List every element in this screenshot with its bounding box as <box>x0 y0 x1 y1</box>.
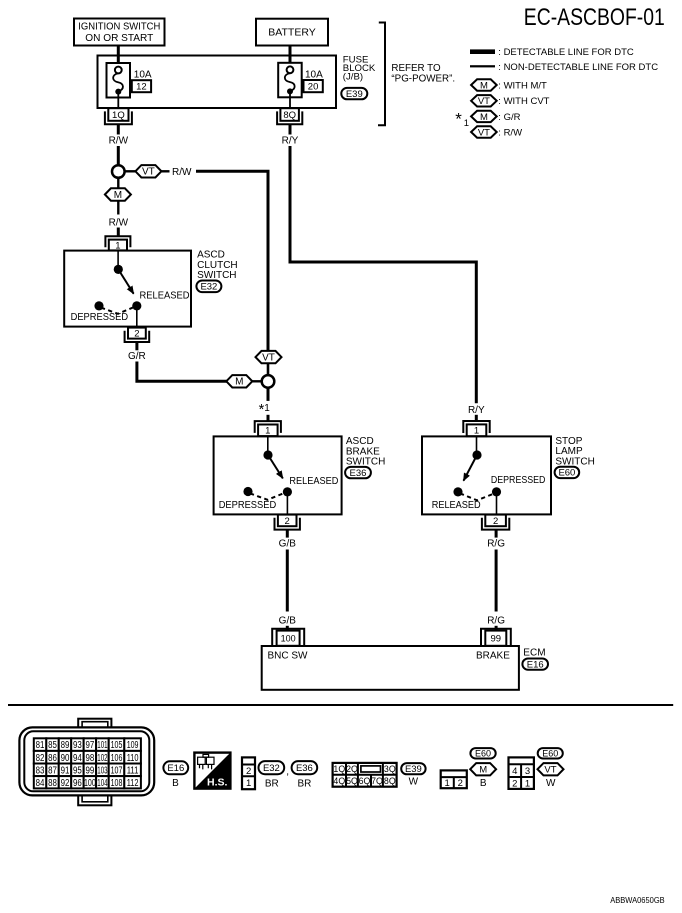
legend G/R text <box>498 112 520 123</box>
connector ref E36 <box>345 467 371 479</box>
svg-text:E32: E32 <box>263 763 280 774</box>
fuse number 12 box <box>132 80 151 92</box>
svg-text:2Q: 2Q <box>346 764 358 774</box>
wire junction down <box>267 387 270 401</box>
svg-text:: DETECTABLE LINE FOR DTC: : DETECTABLE LINE FOR DTC <box>498 47 634 58</box>
wire M hexagon to junction circle <box>252 380 262 382</box>
svg-text:BR: BR <box>265 779 279 790</box>
svg-text:E60: E60 <box>542 749 558 759</box>
ECM box <box>262 646 519 690</box>
svg-text:BATTERY: BATTERY <box>268 27 315 39</box>
clutch switch internal wire from pin 1 <box>117 251 119 266</box>
svg-text:R/W: R/W <box>172 167 192 178</box>
svg-text:93: 93 <box>73 740 82 751</box>
ignition switch box <box>74 19 165 46</box>
wire G/B long run <box>286 550 289 612</box>
svg-text:ABBWA0650GB: ABBWA0650GB <box>610 895 665 905</box>
fuse block label <box>343 54 376 82</box>
wire stop lamp pin 2 down <box>495 530 498 538</box>
svg-text:SWITCH: SWITCH <box>555 456 594 467</box>
connector drawing E32/E36 (2-pin) <box>242 757 255 789</box>
svg-text:(J/B): (J/B) <box>343 72 363 83</box>
stop lamp internal wire to pin 2 <box>496 496 498 515</box>
svg-text:VT: VT <box>544 765 556 776</box>
svg-text:R/G: R/G <box>487 615 505 626</box>
svg-text:87: 87 <box>48 765 57 776</box>
hexagon VT (connector strip) <box>538 763 564 776</box>
stop lamp internal wire from pin 1 <box>476 436 478 450</box>
svg-text:1Q: 1Q <box>333 764 345 774</box>
svg-text:DEPRESSED: DEPRESSED <box>71 312 129 323</box>
legend hexagon M (with M/T) <box>471 79 497 91</box>
wire G/B to ECM pin 100 <box>286 626 289 631</box>
svg-text:1: 1 <box>246 778 251 789</box>
svg-text:1: 1 <box>474 426 479 437</box>
svg-text:82: 82 <box>36 753 45 764</box>
connector ref E16 (ECM) <box>522 659 548 671</box>
svg-text:VT: VT <box>142 167 155 178</box>
brake switch internal wire to pin 2 <box>286 496 288 515</box>
svg-text:96: 96 <box>73 778 82 789</box>
svg-text:REFER TO: REFER TO <box>391 63 441 74</box>
svg-text:E39: E39 <box>346 89 363 100</box>
svg-text:4Q: 4Q <box>333 776 345 786</box>
fuse rating 10A label (right) <box>305 70 323 81</box>
svg-text:111: 111 <box>127 765 139 776</box>
brake switch pin 2 <box>275 515 300 530</box>
battery box <box>256 19 328 46</box>
svg-text:3Q: 3Q <box>384 764 396 774</box>
svg-text:R/Y: R/Y <box>282 136 299 147</box>
wire R/G long run <box>495 550 498 612</box>
clutch switch common contact <box>114 265 123 274</box>
svg-text:VT: VT <box>478 96 490 107</box>
wire R/Y battery feed to stop lamp switch <box>290 146 476 403</box>
svg-text:W: W <box>546 778 556 789</box>
fuse rating 10A label (left) <box>134 70 152 81</box>
svg-text:G/R: G/R <box>128 351 146 362</box>
hexagon M (M/T branch) <box>105 188 131 201</box>
connector id E60 (M/T) <box>470 748 495 758</box>
clutch switch dashed depressed arc <box>101 308 133 314</box>
bracket refer to PG-POWER <box>378 23 455 126</box>
stop lamp switch pin 1 <box>463 421 489 437</box>
junction circle (R/W split) <box>112 165 125 178</box>
legend hexagon VT (R/W) <box>471 126 497 138</box>
svg-text:BNC SW: BNC SW <box>268 651 309 662</box>
svg-text:“PG-POWER”.: “PG-POWER”. <box>391 73 455 84</box>
terminal 1Q <box>105 108 132 124</box>
wire R/W to clutch switch pin 1 <box>117 228 120 237</box>
legend non-detectable text <box>498 62 658 73</box>
svg-text:7Q: 7Q <box>371 776 383 786</box>
svg-text:E32: E32 <box>200 282 217 293</box>
svg-text:: NON-DETECTABLE LINE FOR DTC: : NON-DETECTABLE LINE FOR DTC <box>498 62 658 73</box>
wire ignition switch to fuse 10A-12 <box>117 46 120 67</box>
hexagon M (connector strip) <box>470 763 496 776</box>
svg-text:W: W <box>409 776 419 787</box>
svg-text:E60: E60 <box>558 468 575 479</box>
wire R/W CVT branch right and down <box>196 171 268 351</box>
fuse 10A 12 <box>107 63 131 98</box>
svg-text:ON OR START: ON OR START <box>85 32 154 44</box>
svg-text:E39: E39 <box>405 764 422 775</box>
connector ref E60 <box>555 467 580 479</box>
svg-text:20: 20 <box>308 82 319 93</box>
connector drawing E60 (2-pin, M/T) <box>441 770 467 789</box>
stop lamp common contact <box>472 450 481 459</box>
brake switch pin 1 <box>255 421 281 437</box>
svg-text:89: 89 <box>61 740 70 751</box>
svg-text:BR: BR <box>297 779 311 790</box>
connector ref E39 (fuse block) <box>341 88 367 100</box>
svg-text:R/W: R/W <box>109 136 129 147</box>
wire battery to fuse 10A-20 <box>289 46 292 67</box>
connector id E60 (CVT) <box>538 748 563 758</box>
clutch switch pin 2 <box>125 328 150 342</box>
svg-text:R/W: R/W <box>109 217 129 228</box>
svg-text:105: 105 <box>111 740 123 751</box>
svg-text:100: 100 <box>281 634 296 644</box>
svg-text:E16: E16 <box>167 763 184 774</box>
svg-text:100: 100 <box>84 778 96 789</box>
brake switch released contact <box>283 487 292 496</box>
svg-text:2: 2 <box>285 516 290 527</box>
svg-text:110: 110 <box>127 753 139 764</box>
svg-text:M: M <box>114 190 122 201</box>
brake switch internal wire from pin 1 <box>267 436 269 450</box>
svg-text:M: M <box>480 80 488 91</box>
svg-text:2: 2 <box>493 516 498 527</box>
wire 8Q down <box>289 124 292 134</box>
wire 1Q down <box>117 124 120 134</box>
svg-text:: R/W: : R/W <box>498 128 522 139</box>
svg-text:B: B <box>480 778 487 789</box>
ASCD clutch switch labels <box>197 250 238 282</box>
svg-text:91: 91 <box>61 765 70 776</box>
svg-text:94: 94 <box>73 753 82 764</box>
svg-text:VT: VT <box>478 127 490 138</box>
svg-text:108: 108 <box>111 778 123 789</box>
stop lamp switch labels <box>555 436 594 467</box>
svg-text:3: 3 <box>525 766 530 777</box>
svg-text:83: 83 <box>36 765 45 776</box>
svg-text:12: 12 <box>136 82 147 93</box>
svg-text:EC-ASCBOF-01: EC-ASCBOF-01 <box>524 4 665 31</box>
svg-text:1: 1 <box>464 118 469 129</box>
svg-text:BRAKE: BRAKE <box>476 651 510 662</box>
svg-text:R/G: R/G <box>487 539 505 550</box>
hexagon M (G/R branch) <box>226 375 252 388</box>
legend thin non-detectable line sample <box>470 65 495 67</box>
ECM 32-pin connector drawing E16 <box>19 719 154 806</box>
stop lamp switch pin 2 <box>482 515 509 530</box>
wire R/W to junction circle <box>117 146 120 165</box>
fuse number 20 box <box>304 80 323 93</box>
svg-text:M: M <box>480 112 488 123</box>
svg-text:90: 90 <box>61 753 70 764</box>
svg-text:102: 102 <box>97 753 107 764</box>
svg-text:E36: E36 <box>350 468 367 479</box>
svg-text:84: 84 <box>36 778 45 789</box>
stop lamp dashed depressed arc <box>460 493 495 500</box>
clutch switch moving contact arrow <box>118 269 133 293</box>
wire VT hexagon to junction circle <box>267 363 270 375</box>
svg-text:1: 1 <box>265 426 270 437</box>
stop lamp depressed contact <box>492 487 501 496</box>
hexagon VT (CVT branch) <box>135 165 161 178</box>
brake switch moving contact arrow <box>268 455 283 478</box>
svg-text:: G/R: : G/R <box>498 112 520 123</box>
svg-text:86: 86 <box>48 753 57 764</box>
svg-text:E36: E36 <box>296 763 313 774</box>
svg-text:92: 92 <box>61 778 70 789</box>
svg-text:2: 2 <box>458 778 463 789</box>
svg-text:RELEASED: RELEASED <box>289 476 338 487</box>
ECM pin 99 <box>481 629 511 646</box>
svg-text:RELEASED: RELEASED <box>432 500 481 511</box>
svg-text:,: , <box>286 767 289 778</box>
svg-text:97: 97 <box>85 740 94 751</box>
brake switch dashed depressed arc <box>250 493 283 499</box>
fuse block (J/B) box <box>98 56 337 109</box>
brake switch common contact <box>263 450 272 459</box>
svg-text:ECM: ECM <box>523 648 545 659</box>
svg-text:106: 106 <box>111 753 123 764</box>
clutch switch internal wire to pin 2 <box>136 310 138 327</box>
connector id E32 <box>259 761 285 774</box>
wire R/Y to stop lamp pin 1 <box>475 415 478 421</box>
svg-text:1: 1 <box>525 779 530 790</box>
clutch switch released contact <box>132 301 141 310</box>
svg-text:10A: 10A <box>134 70 152 81</box>
svg-text:DEPRESSED: DEPRESSED <box>219 500 277 511</box>
H.S. harness symbol <box>194 753 230 789</box>
connector id E16 <box>163 761 188 774</box>
legend hexagon VT (with CVT) <box>471 95 497 107</box>
connector drawing E39 (fuse block) <box>333 763 397 787</box>
svg-text:98: 98 <box>85 753 94 764</box>
svg-text:6Q: 6Q <box>359 776 371 786</box>
legend thick detectable line sample <box>470 49 495 54</box>
wire R/G to ECM pin 99 <box>495 626 498 631</box>
ASCD brake switch box <box>214 436 342 514</box>
svg-text:10A: 10A <box>305 70 323 81</box>
svg-text:R/Y: R/Y <box>468 405 485 416</box>
svg-text:H.S.: H.S. <box>207 776 228 788</box>
svg-text:1Q: 1Q <box>112 110 125 121</box>
svg-text:2: 2 <box>134 329 139 340</box>
wire brake pin 2 down <box>286 530 289 537</box>
wire junction to M hexagon <box>117 177 119 188</box>
svg-text:104: 104 <box>97 778 107 789</box>
legend star-1 marker <box>455 109 469 129</box>
stop lamp switch box <box>422 436 551 514</box>
wire G/R down and right to M hexagon <box>137 362 227 382</box>
ASCD brake switch labels <box>346 436 385 467</box>
svg-text:88: 88 <box>48 778 57 789</box>
svg-text:1: 1 <box>264 403 270 414</box>
svg-text:85: 85 <box>48 740 57 751</box>
hexagon VT (R/W branch) <box>256 351 282 364</box>
svg-text:G/B: G/B <box>279 615 297 626</box>
svg-text:M: M <box>479 765 487 776</box>
wire fuse 20 to terminal 8Q <box>289 94 291 109</box>
svg-text:8Q: 8Q <box>283 110 296 121</box>
clutch switch depressed contact <box>94 301 103 310</box>
svg-text:: WITH CVT: : WITH CVT <box>498 96 549 107</box>
svg-text:5Q: 5Q <box>346 776 358 786</box>
star-1 wire marker <box>259 402 271 418</box>
svg-text:107: 107 <box>111 765 123 776</box>
wire fuse 12 to terminal 1Q <box>117 94 119 108</box>
svg-text:*: * <box>455 109 462 128</box>
svg-text:81: 81 <box>36 740 45 751</box>
legend detectable text <box>498 47 634 58</box>
legend with CVT text <box>498 96 549 107</box>
wire junction to VT hexagon <box>124 170 135 172</box>
fuse 10A 20 <box>278 63 302 98</box>
wire VT hexagon stub <box>161 170 169 172</box>
ASCD clutch switch box <box>64 251 191 327</box>
svg-text:G/B: G/B <box>279 539 297 550</box>
svg-text:101: 101 <box>97 740 107 751</box>
stop lamp released contact <box>453 487 462 496</box>
svg-text:95: 95 <box>73 765 82 776</box>
svg-text:4: 4 <box>512 766 517 777</box>
svg-text:VT: VT <box>262 353 275 364</box>
legend R/W text <box>498 128 522 139</box>
svg-text:8Q: 8Q <box>384 776 396 786</box>
svg-text:E16: E16 <box>527 659 544 670</box>
svg-text:103: 103 <box>97 765 107 776</box>
ECM label <box>523 648 545 659</box>
svg-text:: WITH M/T: : WITH M/T <box>498 80 547 91</box>
svg-text:112: 112 <box>127 778 139 789</box>
ECM pin 100 <box>272 629 304 646</box>
svg-text:99: 99 <box>85 765 94 776</box>
stop lamp moving contact arrow <box>464 455 478 481</box>
terminal 8Q <box>277 108 302 124</box>
svg-text:RELEASED: RELEASED <box>140 290 190 301</box>
svg-text:1: 1 <box>445 778 450 789</box>
junction circle (brake switch feed) <box>262 375 275 388</box>
svg-text:2: 2 <box>512 779 517 790</box>
connector ref E32 <box>196 281 221 293</box>
svg-text:M: M <box>235 377 243 388</box>
svg-text:IGNITION SWITCH: IGNITION SWITCH <box>78 21 160 33</box>
connector id E36 <box>292 761 318 774</box>
wire star-1 to brake switch pin 1 <box>267 415 270 421</box>
svg-text:109: 109 <box>127 740 139 751</box>
legend hexagon M (G/R) <box>471 111 497 123</box>
svg-text:E60: E60 <box>475 749 491 759</box>
svg-text:DEPRESSED: DEPRESSED <box>491 475 546 486</box>
svg-text:99: 99 <box>491 634 502 645</box>
brake switch depressed contact <box>243 487 252 496</box>
connector drawing E60 (4-pin, CVT) <box>509 757 534 789</box>
connector id E39 <box>401 763 425 775</box>
clutch switch pin 1 <box>105 236 130 251</box>
wire clutch pin 2 down <box>135 342 138 350</box>
svg-text:2: 2 <box>246 766 251 777</box>
svg-text:B: B <box>172 778 179 789</box>
legend with M/T text <box>498 80 547 91</box>
wire M hexagon down <box>117 201 119 215</box>
separator line above connector strip <box>8 704 673 706</box>
